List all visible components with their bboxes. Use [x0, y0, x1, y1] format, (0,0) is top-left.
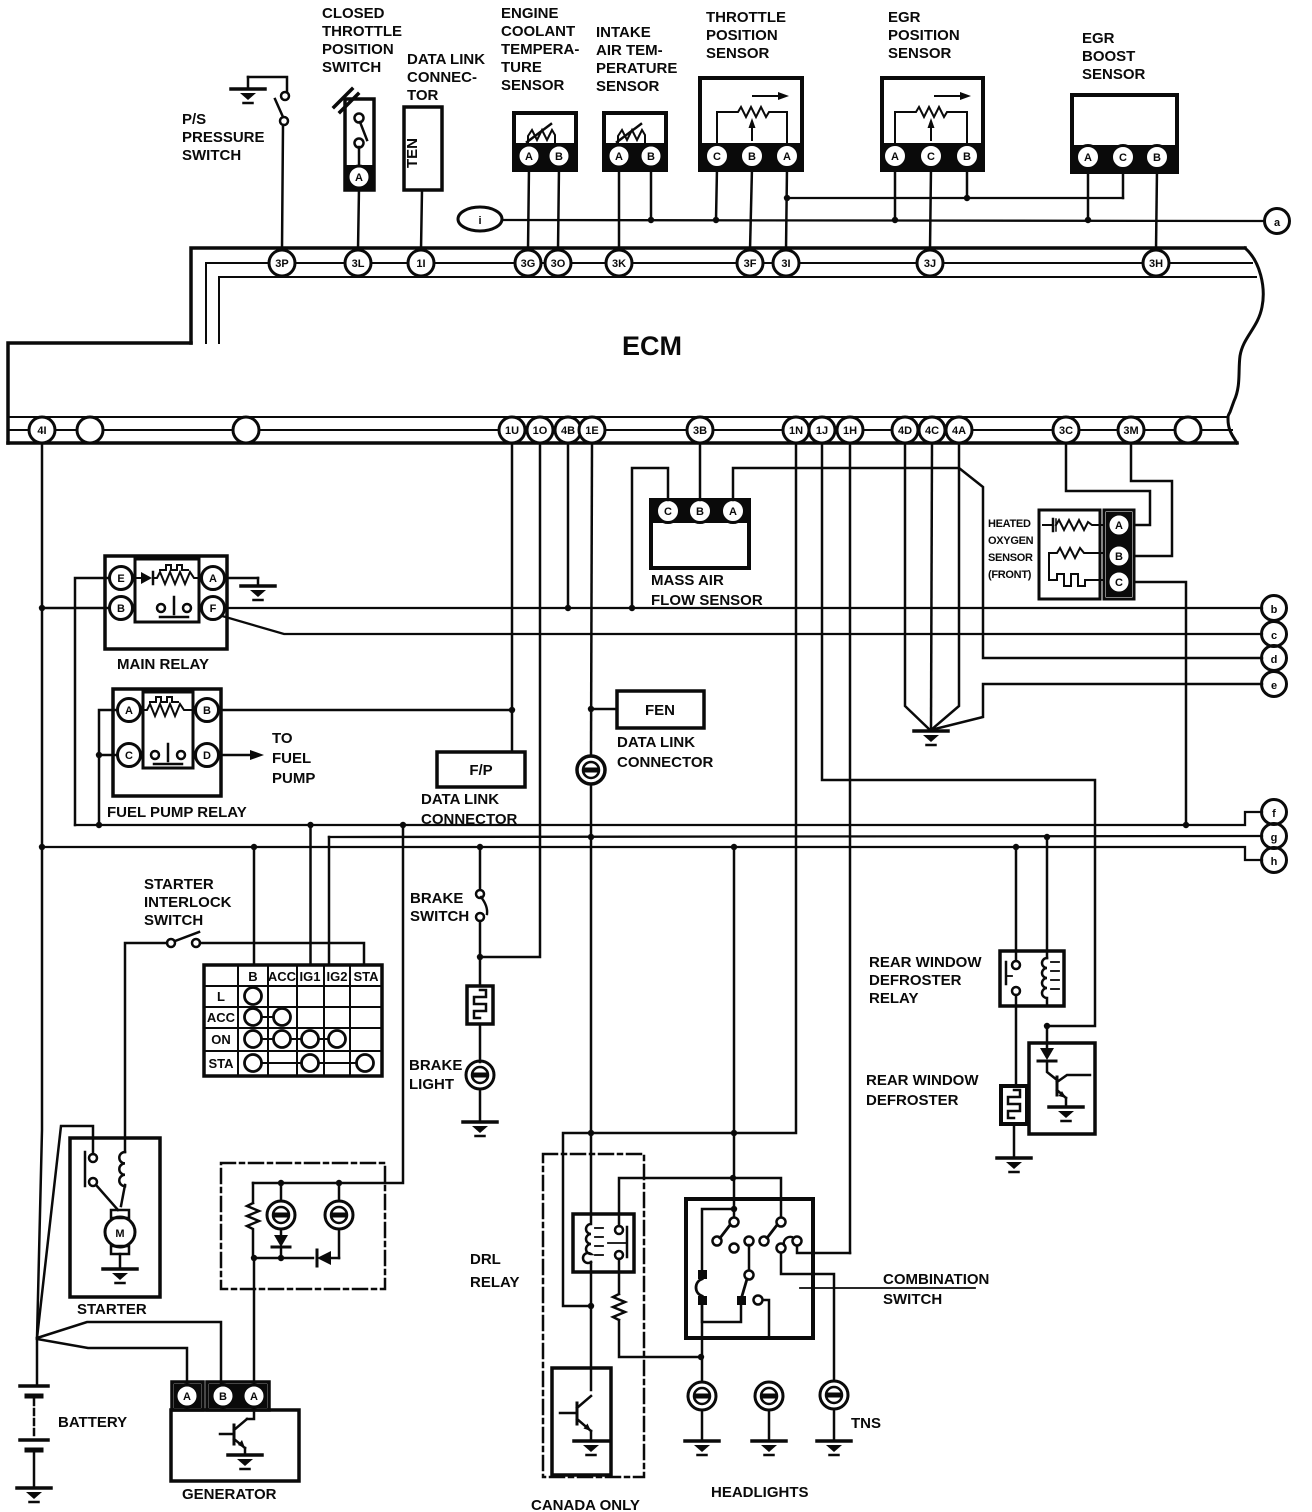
brake switch	[476, 847, 487, 921]
wire net d from MAF A to connector d	[733, 468, 1262, 658]
ground in defroster transistor box	[1049, 1098, 1083, 1121]
svg-text:STA: STA	[353, 969, 379, 984]
svg-text:AIR TEM-: AIR TEM-	[596, 42, 663, 59]
svg-text:A: A	[615, 151, 623, 163]
svg-text:1H: 1H	[843, 425, 857, 437]
ECM pin 3O	[545, 250, 571, 276]
pin A of TPS	[776, 145, 799, 168]
fuel pump relay coil	[141, 697, 195, 716]
svg-text:A: A	[1115, 520, 1123, 532]
label BRAKE LIGHT	[409, 1057, 462, 1093]
ignition switch column headers	[248, 969, 379, 984]
svg-text:B: B	[696, 506, 704, 518]
svg-text:SENSOR: SENSOR	[888, 45, 952, 62]
combination switch internal feed branch	[702, 1206, 737, 1271]
switch S1 P/S pressure switch	[248, 77, 289, 125]
wire pin 4I to battery	[37, 443, 42, 1386]
svg-text:a: a	[1274, 217, 1281, 229]
wire battery to generator A	[37, 1339, 187, 1385]
main relay pin E	[110, 567, 133, 590]
generator connector blocks	[172, 1382, 269, 1410]
ground from main relay A	[225, 578, 275, 600]
pin A of EGR position sensor	[884, 145, 907, 168]
svg-text:SWITCH: SWITCH	[883, 1291, 942, 1308]
wire TPS C down to sensor-ground line	[716, 168, 717, 220]
svg-text:A: A	[891, 151, 899, 163]
node battery line at main relay B	[39, 605, 45, 611]
pin C of EGR position sensor	[920, 145, 943, 168]
ECM pin 3K	[606, 250, 632, 276]
MAF pin C	[657, 500, 680, 523]
svg-text:PERATURE: PERATURE	[596, 60, 677, 77]
svg-text:HEADLIGHTS: HEADLIGHTS	[711, 1484, 809, 1501]
svg-text:IG2: IG2	[327, 969, 348, 984]
main relay box	[105, 556, 227, 649]
wire battery to generator B	[37, 1322, 221, 1385]
svg-text:3H: 3H	[1149, 258, 1163, 270]
svg-text:DRL: DRL	[470, 1251, 501, 1268]
wire pin 4C to sensor ground point	[931, 443, 932, 730]
ignition switch contact circles	[245, 988, 374, 1072]
transistor in generator	[220, 1419, 247, 1448]
connector oval i	[458, 207, 502, 231]
svg-text:STARTER: STARTER	[144, 876, 214, 893]
ground for starter motor	[103, 1254, 137, 1283]
potentiometer in TPS	[717, 92, 789, 143]
wire EGR boost C down to reference line	[1122, 169, 1125, 198]
wire rear defroster relay contact to net h	[1015, 847, 1018, 961]
svg-text:TEN: TEN	[404, 138, 421, 168]
svg-text:F/P: F/P	[469, 762, 492, 779]
instrument cluster dash-dot box	[221, 1163, 385, 1289]
svg-text:C: C	[927, 151, 935, 163]
pin C of TPS	[706, 145, 729, 168]
EGR boost sensor box	[1072, 95, 1177, 172]
ground for TNS bulb	[817, 1409, 851, 1455]
svg-text:FUEL: FUEL	[272, 750, 311, 767]
svg-text:RELAY: RELAY	[470, 1274, 519, 1291]
label CLOSED THROTTLE POSITION SWITCH	[322, 5, 402, 76]
svg-text:E: E	[117, 573, 124, 585]
svg-text:REAR WINDOW: REAR WINDOW	[866, 1072, 979, 1089]
svg-text:MAIN RELAY: MAIN RELAY	[117, 656, 209, 673]
svg-text:c: c	[1271, 630, 1277, 642]
label MASS AIR FLOW SENSOR	[651, 572, 763, 609]
wire ECT A to pin 3G	[528, 167, 529, 250]
svg-text:1O: 1O	[533, 425, 548, 437]
starter solenoid contact	[85, 1152, 118, 1210]
wire net h branch to combination switch	[733, 847, 736, 1209]
transistor in Canada box	[560, 1396, 591, 1431]
intake air temperature sensor box	[604, 113, 666, 170]
svg-text:3G: 3G	[521, 258, 536, 270]
node cluster top rail at bulb2	[336, 1180, 342, 1186]
svg-text:INTAKE: INTAKE	[596, 24, 651, 41]
svg-text:3B: 3B	[693, 425, 707, 437]
data link connector TEN box	[404, 107, 442, 190]
DRL indicator bulb in cluster	[325, 1183, 353, 1258]
svg-text:DATA LINK: DATA LINK	[407, 51, 485, 68]
FEN data link connector box	[617, 691, 704, 728]
svg-text:TOR: TOR	[407, 87, 439, 104]
svg-text:C: C	[713, 151, 721, 163]
wire interlock switch to starter coil	[125, 943, 167, 1138]
heater element symbol in O2 sensor	[1043, 519, 1103, 531]
wire pin 4B to net b	[567, 443, 570, 608]
wire rear defroster relay coil to net g	[1046, 837, 1049, 958]
left headlight bulb	[688, 1382, 716, 1410]
ECM pin 1I	[408, 250, 434, 276]
fuel pump relay pin B	[196, 699, 219, 722]
svg-text:BRAKE: BRAKE	[410, 890, 463, 907]
wire P/S switch to pin 3P	[282, 125, 283, 250]
rear defroster transistor box	[1029, 1043, 1095, 1134]
label DATA LINK CONNECTOR (F/P)	[421, 791, 518, 828]
wire fuel pump relay A and C to f-net	[96, 710, 117, 825]
svg-text:TNS: TNS	[851, 1415, 881, 1432]
resistor in cluster	[247, 1183, 259, 1258]
wire ignition IG1 column to net f	[309, 825, 312, 965]
svg-text:ACC: ACC	[268, 969, 297, 984]
combination switch flash contact set	[760, 1218, 802, 1253]
svg-text:g: g	[1271, 832, 1278, 844]
svg-text:SWITCH: SWITCH	[410, 908, 469, 925]
svg-text:b: b	[1271, 604, 1278, 616]
rear window defroster element	[1001, 1086, 1027, 1124]
label REAR WINDOW DEFROSTER RELAY	[869, 954, 982, 1007]
svg-text:POSITION: POSITION	[706, 27, 778, 44]
ECM pin 1H	[837, 417, 863, 443]
svg-text:PRESSURE: PRESSURE	[182, 129, 265, 146]
svg-text:B: B	[748, 151, 756, 163]
ECM pin 1O	[527, 417, 553, 443]
wire O2 pin C to f-net	[1134, 582, 1186, 825]
wire TPS A to pin 3I	[786, 168, 787, 250]
ECM body outline left step	[8, 343, 191, 443]
right headlight bulb	[755, 1382, 783, 1410]
ECM pin 3B	[687, 417, 713, 443]
starter motor	[105, 1210, 135, 1254]
svg-text:B: B	[117, 603, 125, 615]
EGR position sensor box	[882, 78, 983, 170]
wire brake switch to brake light element	[479, 921, 482, 986]
svg-text:1U: 1U	[505, 425, 519, 437]
combination switch dimmer contact set	[737, 1237, 754, 1306]
svg-text:COMBINATION: COMBINATION	[883, 1271, 989, 1288]
Canada only transistor box	[552, 1368, 611, 1475]
svg-text:POSITION: POSITION	[322, 41, 394, 58]
svg-text:3C: 3C	[1059, 425, 1073, 437]
brake light in-line element box	[467, 986, 493, 1024]
CANADA ONLY dash-dot box	[543, 1154, 644, 1477]
label BRAKE SWITCH	[410, 890, 469, 925]
generator pin A (left)	[176, 1385, 198, 1407]
generator body box	[171, 1410, 299, 1481]
wire main relay E to f-net vertical	[75, 578, 109, 825]
wire MAF C to net b	[632, 468, 668, 608]
svg-text:L: L	[217, 989, 225, 1004]
ECM pin 3J	[917, 250, 943, 276]
svg-text:1J: 1J	[816, 425, 828, 437]
svg-text:DATA LINK: DATA LINK	[421, 791, 499, 808]
wire EGR position C to pin 3J	[930, 168, 931, 250]
combination switch high-beam contact	[754, 1296, 770, 1339]
wire net f bus line	[75, 812, 1262, 828]
node cluster top rail at bulb1	[278, 1180, 284, 1186]
potentiometer in EGR position sensor	[895, 92, 971, 143]
label STARTER INTERLOCK SWITCH	[144, 876, 232, 929]
svg-text:BOOST: BOOST	[1082, 48, 1135, 65]
wire main relay B to battery line	[41, 607, 109, 610]
rear defroster relay contact	[1006, 961, 1020, 995]
fuel pump relay pin A	[118, 699, 141, 722]
svg-text:B: B	[203, 705, 211, 717]
ECM pin 3G	[515, 250, 541, 276]
ECM pin 4B	[555, 417, 581, 443]
svg-text:STA: STA	[208, 1056, 234, 1071]
svg-text:A: A	[729, 506, 737, 518]
pin A of ECT sensor	[518, 145, 540, 167]
svg-text:1E: 1E	[585, 425, 598, 437]
connector circle a	[1265, 209, 1290, 234]
wire battery to starter contact	[37, 1126, 93, 1338]
ECM pin 3L	[345, 250, 371, 276]
F/P data link connector box	[437, 752, 525, 787]
brake light bulb	[466, 1061, 494, 1089]
wire CTP switch A to pin 3L	[358, 188, 359, 250]
wire flash contact to 1H loop	[797, 1246, 850, 1253]
ECM pin 1J	[809, 417, 835, 443]
svg-text:4B: 4B	[561, 425, 575, 437]
fuel pump relay box	[113, 689, 221, 796]
svg-text:SENSOR: SENSOR	[706, 45, 770, 62]
wire EGR position A down to sensor-ground line	[894, 168, 897, 220]
connector circle g	[1262, 824, 1287, 849]
ground in Canada transistor box	[574, 1431, 608, 1455]
svg-text:C: C	[1119, 152, 1127, 164]
label INTAKE AIR TEMPERATURE SENSOR	[596, 24, 677, 95]
pin A of IAT sensor	[608, 145, 630, 167]
svg-text:A: A	[355, 172, 363, 184]
O2 sensor pin B	[1108, 545, 1130, 567]
MAF pin B	[689, 500, 712, 523]
svg-text:POSITION: POSITION	[888, 27, 960, 44]
wire left headlight from combination switch	[701, 1305, 704, 1382]
node brake net junction	[477, 954, 483, 960]
O2 sensor pin A	[1108, 514, 1130, 536]
svg-text:OXYGEN: OXYGEN	[988, 535, 1034, 547]
svg-text:SENSOR: SENSOR	[501, 77, 565, 94]
pin B of TPS	[741, 145, 764, 168]
wire pin 3B to MAF B	[699, 443, 702, 500]
pin A of CTP switch	[348, 166, 370, 188]
rear defroster relay coil	[1042, 958, 1059, 1006]
svg-text:SENSOR: SENSOR	[1082, 66, 1146, 83]
svg-text:C: C	[1115, 577, 1123, 589]
combination switch low-beam contacts	[696, 1270, 707, 1305]
generator pin A (right)	[243, 1385, 265, 1407]
svg-text:4C: 4C	[925, 425, 939, 437]
svg-text:3F: 3F	[744, 258, 757, 270]
node DRL contact line and headlight feed	[730, 1175, 736, 1181]
svg-text:BRAKE: BRAKE	[409, 1057, 462, 1074]
connector circle h	[1262, 848, 1287, 873]
svg-text:HEATED: HEATED	[988, 518, 1031, 530]
thermistor symbol in ECT sensor	[527, 124, 555, 143]
svg-text:1N: 1N	[789, 425, 803, 437]
wire 1E connector to net g and down to DRL relay	[590, 784, 593, 1214]
svg-text:A: A	[250, 1391, 258, 1403]
charge warning bulb in cluster	[267, 1183, 295, 1229]
svg-text:D: D	[203, 750, 211, 762]
wire IAT B down to sensor-ground line	[650, 167, 653, 220]
ECM pin 1U	[499, 417, 525, 443]
svg-text:f: f	[1272, 808, 1276, 820]
label ENGINE COOLANT TEMPERATURE SENSOR	[501, 5, 579, 94]
svg-text:FUEL PUMP RELAY: FUEL PUMP RELAY	[107, 804, 247, 821]
wire pin 3C to O2 pin A	[1066, 443, 1150, 525]
svg-text:CONNEC-: CONNEC-	[407, 69, 477, 86]
svg-text:IG1: IG1	[300, 969, 321, 984]
ground for right headlight	[752, 1410, 786, 1455]
wire net h bus line	[39, 844, 1262, 860]
pin B of IAT sensor	[640, 145, 662, 167]
wire IAT A to pin 3K	[618, 167, 621, 250]
label EGR BOOST SENSOR	[1082, 30, 1146, 83]
ECM top connector rail	[191, 248, 1256, 343]
resistor symbol in O2 sensor	[1049, 548, 1103, 580]
O2 sensor pin C	[1108, 571, 1130, 593]
wire net g bus line	[329, 834, 1262, 840]
label EGR POSITION SENSOR	[888, 9, 960, 62]
fuel pump relay pin C	[118, 744, 141, 767]
svg-text:A: A	[209, 573, 217, 585]
label THROTTLE POSITION SENSOR	[706, 9, 786, 62]
label COMBINATION SWITCH	[883, 1271, 989, 1308]
wire pin 1E down to DRL relay	[591, 443, 592, 756]
wire pin 4D to sensor ground point	[905, 443, 930, 730]
svg-text:3L: 3L	[352, 258, 365, 270]
svg-text:4D: 4D	[898, 425, 912, 437]
svg-text:SWITCH: SWITCH	[182, 147, 241, 164]
svg-text:FEN: FEN	[645, 702, 675, 719]
svg-text:B: B	[647, 151, 655, 163]
main relay pin A	[202, 567, 225, 590]
svg-text:3K: 3K	[612, 258, 626, 270]
wire EGR position B down to reference line	[966, 168, 969, 198]
wire TNS feed from combination switch	[781, 1253, 834, 1381]
wire pin 1H down to combination switch	[849, 443, 852, 1253]
svg-text:A: A	[525, 151, 533, 163]
wire ECT B to pin 3O	[558, 167, 559, 250]
svg-text:PUMP: PUMP	[272, 770, 315, 787]
svg-text:B: B	[1153, 152, 1161, 164]
heated oxygen sensor boxes	[1039, 510, 1134, 599]
closed throttle position switch box	[334, 89, 374, 190]
label REAR WINDOW DEFROSTER	[866, 1072, 979, 1109]
svg-text:SWITCH: SWITCH	[144, 912, 203, 929]
wire interlock switch to ignition STA column	[200, 943, 364, 965]
svg-text:3I: 3I	[781, 258, 790, 270]
wire DRL coil to Canada transistor	[590, 1272, 593, 1390]
svg-text:C: C	[664, 506, 672, 518]
connector circle e	[1262, 672, 1287, 697]
svg-text:ENGINE: ENGINE	[501, 5, 559, 22]
ignition switch table	[204, 965, 382, 1076]
ECM torn right edge	[1228, 248, 1263, 443]
svg-text:e: e	[1271, 680, 1277, 692]
pin C of EGR boost sensor	[1112, 146, 1135, 169]
svg-text:DEFROSTER: DEFROSTER	[869, 972, 962, 989]
mass air flow sensor box	[651, 500, 749, 568]
svg-text:THROTTLE: THROTTLE	[706, 9, 786, 26]
label DRL RELAY	[470, 1251, 519, 1291]
transistor in defroster box	[1047, 1061, 1090, 1098]
ECM pin 4I	[29, 417, 55, 443]
label TO FUEL PUMP	[272, 730, 315, 787]
wire TPS B to pin 3F	[750, 168, 752, 250]
wire EGR boost A down to sensor-ground line	[1087, 169, 1090, 220]
svg-text:A: A	[125, 705, 133, 717]
pin B of EGR boost sensor	[1146, 146, 1169, 169]
ECM pin 3I	[773, 250, 799, 276]
wire net f branch to cluster top rail	[253, 825, 403, 1183]
label HEATED OXYGEN SENSOR (FRONT)	[988, 518, 1034, 581]
svg-text:ECM: ECM	[622, 331, 682, 361]
pin B of EGR position sensor	[956, 145, 979, 168]
DRL relay box	[573, 1214, 634, 1272]
ECM pin 1N	[783, 417, 809, 443]
ECM pin 4A	[946, 417, 972, 443]
wire pin 1J loop to rear defroster relay coil	[822, 443, 1095, 1029]
diode under charge bulb	[272, 1229, 290, 1258]
svg-text:C: C	[125, 750, 133, 762]
wire generator A2 up through transistor	[247, 1407, 254, 1419]
wire element to brake light bulb	[479, 1024, 482, 1062]
ECM pin 4C	[919, 417, 945, 443]
main relay coil with diode	[133, 565, 201, 584]
ground for left headlight	[685, 1410, 719, 1455]
ECM pin 3F	[737, 250, 763, 276]
ignition switch row labels	[207, 989, 236, 1071]
label pointer line COMBINATION SWITCH	[800, 1287, 975, 1289]
svg-text:A: A	[183, 1391, 191, 1403]
svg-text:A: A	[1084, 152, 1092, 164]
ECM pin 3C	[1053, 417, 1079, 443]
combination switch box	[686, 1199, 813, 1338]
svg-text:A: A	[783, 151, 791, 163]
ECM bottom connector rail	[8, 417, 1237, 443]
starter interlock switch	[167, 932, 200, 947]
svg-text:THROTTLE: THROTTLE	[322, 23, 402, 40]
starter box	[70, 1138, 160, 1297]
wire ignition IG2 column to net g	[328, 837, 331, 965]
svg-text:DATA LINK: DATA LINK	[617, 734, 695, 751]
svg-text:h: h	[1271, 856, 1278, 868]
connector circle f	[1262, 800, 1287, 825]
ECM pin 3P	[269, 250, 295, 276]
svg-text:TEMPERA-: TEMPERA-	[501, 41, 579, 58]
svg-text:LIGHT: LIGHT	[409, 1076, 454, 1093]
ECM pin 3H	[1143, 250, 1169, 276]
svg-text:COOLANT: COOLANT	[501, 23, 575, 40]
cluster bottom rail with diode	[251, 1250, 339, 1266]
svg-text:GENERATOR: GENERATOR	[182, 1486, 277, 1503]
ground for brake light	[463, 1089, 497, 1136]
svg-text:SENSOR: SENSOR	[596, 78, 660, 95]
svg-text:ACC: ACC	[207, 1010, 236, 1025]
svg-text:TO: TO	[272, 730, 293, 747]
